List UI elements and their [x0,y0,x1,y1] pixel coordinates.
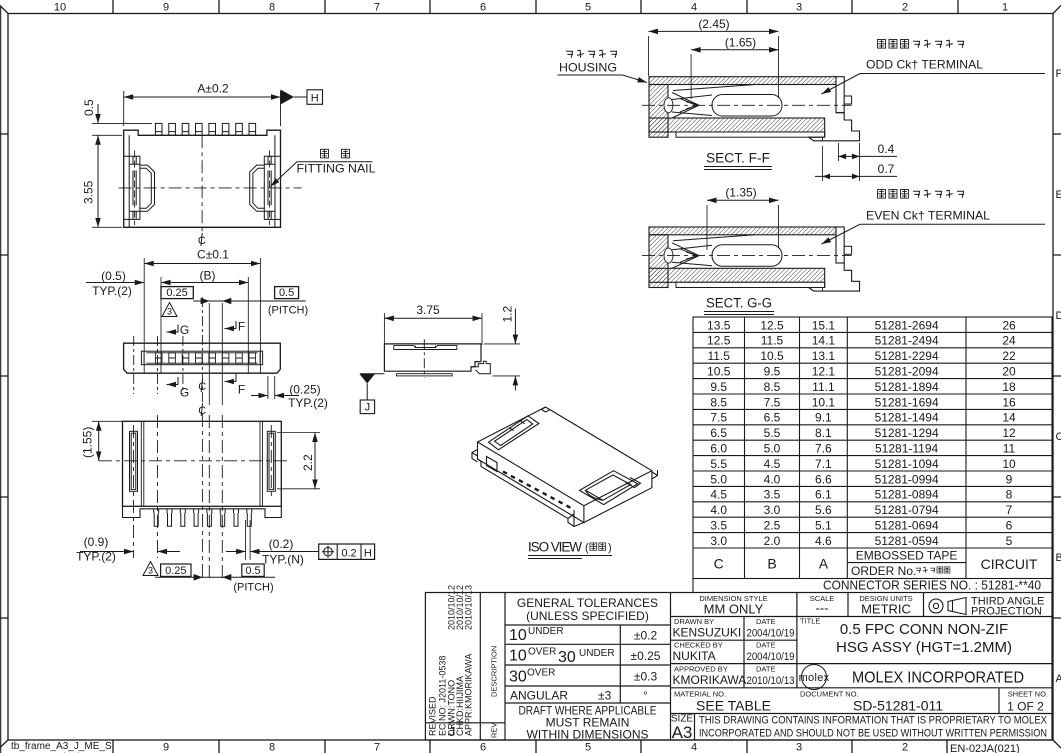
centerline [423,339,425,378]
svg-text:°: ° [643,689,648,703]
svg-text:5.0: 5.0 [710,472,727,486]
svg-text:D: D [1056,310,1061,322]
svg-text:14.1: 14.1 [812,334,836,348]
svg-text:tb_frame_A3_J_ME_S: tb_frame_A3_J_ME_S [11,741,112,752]
svg-text:0.7: 0.7 [878,162,895,176]
svg-text:J: J [449,724,456,739]
datum J flag [360,373,384,375]
svg-text:(UNLESS SPECIFIED): (UNLESS SPECIFIED) [526,609,649,623]
svg-text:SD-51281-011: SD-51281-011 [853,698,943,714]
svg-text:51281-1494: 51281-1494 [875,411,939,425]
svg-text:9.5: 9.5 [710,380,727,394]
nail slots [130,431,276,491]
svg-text:TYP.(N): TYP.(N) [262,553,304,567]
contact strip [141,351,262,365]
top face [478,407,652,506]
svg-text:H: H [311,92,319,104]
svg-text:OVER: OVER [527,668,555,679]
svg-text:4.5: 4.5 [764,457,781,471]
housing top bar (hatched) [649,77,836,85]
warning triangle 3 [162,303,177,317]
left wall notch [664,98,673,113]
SECT F-F dims and labels [558,17,1046,181]
svg-text:APPR:KMORIKAWA: APPR:KMORIKAWA [464,654,474,736]
svg-text:2.0: 2.0 [764,534,781,548]
svg-text:10: 10 [54,2,66,14]
svg-text:REV: REV [490,723,499,738]
svg-text:51281-0894: 51281-0894 [875,488,939,502]
svg-text:6.0: 6.0 [710,442,727,456]
right end block [836,77,844,113]
svg-text:14: 14 [1002,411,1016,425]
svg-text:MM ONLY: MM ONLY [704,602,764,617]
right lower tail [809,113,860,141]
svg-text:(1.35): (1.35) [725,186,756,200]
svg-text:SECT. F-F: SECT. F-F [706,151,770,166]
svg-text:F: F [1056,68,1061,80]
svg-text:11.1: 11.1 [812,380,835,394]
svg-text:CONNECTOR SERIES NO. : 51281-*: CONNECTOR SERIES NO. : 51281-**40 [823,578,1041,593]
svg-text:HSG ASSY (HGT=1.2MM): HSG ASSY (HGT=1.2MM) [836,639,1012,656]
svg-text:(1.55): (1.55) [81,427,95,458]
svg-text:(0.9): (0.9) [84,535,109,549]
svg-text:1.2: 1.2 [501,305,515,322]
front lower ledge [478,459,584,527]
odd terminal label [878,40,965,49]
svg-text:51281-1094: 51281-1094 [875,457,939,471]
svg-text:51281-0694: 51281-0694 [875,519,939,533]
svg-text:6: 6 [480,742,486,753]
gauge dashed lines [134,297,203,405]
svg-text:30: 30 [509,669,527,686]
svg-text:(PITCH): (PITCH) [233,582,273,594]
svg-text:HOUSING: HOUSING [559,61,617,75]
svg-text:9.5: 9.5 [764,365,781,379]
svg-text:A3: A3 [672,723,693,742]
centerline horizontal [119,187,302,189]
centerline symbol [198,233,206,247]
svg-text:PROJECTION: PROJECTION [971,606,1042,618]
svg-text:G: G [180,323,189,337]
svg-text:3.5: 3.5 [764,488,781,502]
housing left wall (hatched) [649,85,668,138]
frame bottom ticks [113,740,947,753]
pins [154,509,252,527]
svg-text:3.0: 3.0 [710,534,727,548]
svg-text:J: J [365,402,371,414]
svg-text:5: 5 [1006,534,1013,548]
svg-text:ORDER No.: ORDER No. [851,564,916,578]
svg-text:DATE: DATE [756,617,775,626]
svg-text:51281-2294: 51281-2294 [875,349,939,363]
fitting nail label [321,149,350,158]
svg-text:51281-1294: 51281-1294 [875,426,939,440]
title block [425,585,1052,742]
boxed 0.25 [161,564,191,576]
svg-text:51281-0594: 51281-0594 [875,534,939,548]
VIEW 3 : bottom view [76,403,374,594]
dim 0.4 / 0.7 [823,143,860,181]
svg-text:3.75: 3.75 [416,303,440,317]
frame top ticks [113,0,958,14]
svg-text:5.1: 5.1 [815,519,832,533]
warning triangle 3 [143,562,158,576]
svg-text:6.5: 6.5 [710,426,727,440]
svg-text:0.25: 0.25 [165,565,186,577]
boxed 0.25 [161,287,193,299]
terminal [672,85,782,119]
svg-text:1: 1 [1002,2,1008,14]
frame zone letters right [1056,68,1061,685]
svg-text:3.55: 3.55 [82,180,96,204]
svg-text:±3: ±3 [598,689,612,703]
svg-text:2: 2 [902,742,908,753]
svg-text:GENERAL TOLERANCES: GENERAL TOLERANCES [517,596,658,610]
svg-text:6: 6 [1006,519,1013,533]
svg-text:9: 9 [163,2,169,14]
boxed 0.5 pitch [242,564,264,576]
svg-text:DESCRIPTION: DESCRIPTION [490,646,499,697]
fitting nail left [124,151,155,226]
svg-text:DATE: DATE [756,665,775,674]
order table [693,317,1052,593]
svg-text:2004/10/19: 2004/10/19 [747,628,795,640]
svg-text:8.5: 8.5 [764,380,781,394]
svg-text:51281-0794: 51281-0794 [875,503,939,517]
frame zone numbers bottom [163,742,908,753]
svg-text:TYP.(2): TYP.(2) [92,284,132,298]
bottom flange [123,506,282,517]
svg-text:A: A [1056,673,1061,685]
svg-text:A±0.2: A±0.2 [197,82,229,96]
svg-text:3: 3 [796,2,802,14]
svg-text:12.5: 12.5 [760,318,784,332]
svg-text:2.5: 2.5 [764,519,781,533]
frame zone numbers top [54,2,1008,14]
fitting nail right [250,151,281,226]
svg-text:9.1: 9.1 [815,411,832,425]
revision column rotated texts [428,585,474,736]
svg-text:4: 4 [691,2,697,14]
third angle projection symbol [929,598,966,615]
svg-text:0.5: 0.5 [279,287,294,299]
svg-text:4.0: 4.0 [764,472,781,486]
svg-text:TYP.(2): TYP.(2) [288,396,328,410]
svg-text:51281-1194: 51281-1194 [875,442,938,456]
body sides [478,442,652,523]
SIDE VIEW 3.75 [359,303,520,414]
boxed 0.5 pitch [275,287,299,299]
svg-text:12.1: 12.1 [812,365,836,379]
svg-text:12.5: 12.5 [707,334,731,348]
svg-text:7: 7 [374,2,380,14]
svg-text:20: 20 [1002,365,1016,379]
svg-text:4.5: 4.5 [710,488,727,502]
ISO VIEW [472,407,658,527]
svg-text:0.25: 0.25 [166,287,187,299]
svg-text:51281-2494: 51281-2494 [875,334,939,348]
svg-text:OVER: OVER [528,647,556,658]
svg-text:REVISED: REVISED [428,696,438,736]
svg-text:5.5: 5.5 [764,426,781,440]
svg-text:10: 10 [509,648,527,665]
svg-text:(0.5): (0.5) [101,269,126,283]
svg-text:1 OF 2: 1 OF 2 [1007,700,1044,714]
svg-text:(: ( [585,542,589,554]
svg-text:8: 8 [1006,488,1013,502]
svg-text:11: 11 [1003,442,1016,456]
pins row [155,123,255,135]
svg-text:6.5: 6.5 [764,411,781,425]
svg-text:(0.2): (0.2) [269,537,294,551]
svg-text:(2.45): (2.45) [698,17,729,31]
centerlines [99,414,291,580]
centerline vertical [201,135,203,233]
svg-text:B: B [1056,552,1061,564]
section arrow H [281,90,295,105]
svg-text:F: F [238,320,245,334]
svg-text:13.1: 13.1 [812,349,836,363]
bottom terminal strip [676,132,825,137]
pitch shelf line [155,576,275,578]
svg-text:7.1: 7.1 [815,457,832,471]
svg-text:): ) [608,542,612,554]
right end step [652,470,658,479]
svg-text:7.5: 7.5 [764,395,781,409]
body [384,344,481,371]
svg-text:15.1: 15.1 [812,318,836,332]
housing bottom bar (hatched) [649,118,825,132]
left end step [472,450,478,463]
order-no katakana (small) [916,567,950,573]
svg-text:C±0.1: C±0.1 [197,248,229,262]
VIEW 1 : front view top-left [82,82,376,247]
svg-text:10.1: 10.1 [812,395,836,409]
svg-text:(0.25): (0.25) [289,383,320,397]
svg-text:F: F [238,383,245,397]
svg-text:5: 5 [585,742,591,753]
svg-text:2.2: 2.2 [301,454,315,471]
svg-text:7.6: 7.6 [815,442,832,456]
position tolerance frame [319,544,375,559]
SECTION housing symbol [642,77,860,141]
svg-text:EMBOSSED TAPE: EMBOSSED TAPE [856,548,958,562]
inner wall lines [129,135,275,227]
svg-text:7: 7 [374,742,380,753]
svg-text:CIRCUIT: CIRCUIT [981,556,1038,572]
svg-text:INCORPORATED AND SHOULD NOT BE: INCORPORATED AND SHOULD NOT BE USED WITH… [699,728,1047,740]
contacts [155,353,255,363]
body outline [123,421,282,506]
svg-text:ODD Ck† TERMINAL: ODD Ck† TERMINAL [866,58,983,72]
svg-text:3.0: 3.0 [764,503,781,517]
svg-text:SEE TABLE: SEE TABLE [696,698,771,714]
svg-text:G: G [180,386,189,400]
svg-text:16: 16 [1002,395,1016,409]
svg-text:2: 2 [902,2,908,14]
svg-text:KMORIKAWA: KMORIKAWA [673,673,747,687]
svg-text:KENSUZUKI: KENSUZUKI [673,626,742,640]
svg-text:11.5: 11.5 [761,334,784,348]
svg-text:12: 12 [1002,426,1016,440]
svg-text:51281-1894: 51281-1894 [875,380,939,394]
svg-text:0.2: 0.2 [341,547,356,559]
svg-text:EVEN Ck† TERMINAL: EVEN Ck† TERMINAL [866,209,990,223]
bottom plate [397,374,453,376]
svg-text:UNDER: UNDER [528,626,564,637]
svg-text:2010/10/13: 2010/10/13 [747,675,795,687]
svg-text:C: C [1056,431,1061,443]
svg-text:6.6: 6.6 [815,472,832,486]
svg-text:---: --- [816,601,829,616]
centerline [642,104,852,106]
svg-text:18: 18 [1002,380,1016,394]
svg-text:MOLEX INCORPORATED: MOLEX INCORPORATED [852,670,1024,687]
svg-text:4.6: 4.6 [815,534,832,548]
body outline [124,130,281,227]
svg-text:0.4: 0.4 [878,142,895,156]
front slot opening [487,457,498,472]
molex logo [802,665,827,690]
svg-text:9: 9 [1006,472,1013,486]
svg-text:ISO VIEW: ISO VIEW [528,540,582,555]
VIEW 2 : plan view [86,248,328,411]
svg-text:8: 8 [269,742,275,753]
svg-text:51281-2094: 51281-2094 [875,365,939,379]
top actuator plate [394,346,457,350]
svg-text:51281-2694: 51281-2694 [875,318,939,332]
svg-text:51281-1694: 51281-1694 [875,395,939,409]
svg-text:6.1: 6.1 [815,488,832,502]
svg-text:10: 10 [1002,457,1016,471]
svg-text:DATE: DATE [756,641,775,650]
svg-text:3: 3 [796,742,802,753]
svg-text:SHEET NO.: SHEET NO. [1008,690,1048,699]
svg-text:THIS DRAWING CONTAINS INFORMAT: THIS DRAWING CONTAINS INFORMATION THAT I… [699,715,1048,727]
svg-text:EN-02JA(021): EN-02JA(021) [950,743,1020,753]
svg-text:ANGULAR: ANGULAR [510,689,568,703]
svg-text:0.5: 0.5 [82,99,96,116]
svg-text:3.5: 3.5 [710,519,727,533]
svg-text:E: E [1056,189,1061,201]
svg-text:±0.2: ±0.2 [634,629,658,643]
svg-text:5.6: 5.6 [815,503,832,517]
svg-text:24: 24 [1002,334,1016,348]
svg-text:2010/10/13: 2010/10/13 [464,585,474,630]
svg-text:0.5 FPC CONN NON-ZIF: 0.5 FPC CONN NON-ZIF [840,621,1008,638]
svg-text:UNDER: UNDER [579,648,615,659]
svg-text:3: 3 [148,566,153,576]
svg-text:0.5: 0.5 [245,565,260,577]
svg-text:FITTING NAIL: FITTING NAIL [297,162,376,176]
housing label [566,50,617,58]
svg-text:8.5: 8.5 [710,395,727,409]
svg-text:DOCUMENT NO.: DOCUMENT NO. [800,690,859,699]
SECT G-G [642,227,860,291]
svg-text:10: 10 [509,627,527,644]
frame side ticks [0,134,1061,618]
svg-text:5: 5 [585,2,591,14]
svg-text:5.0: 5.0 [764,442,781,456]
svg-text:(1.65): (1.65) [725,36,756,50]
svg-text:C: C [714,556,724,572]
svg-text:WITHIN DIMENSIONS: WITHIN DIMENSIONS [527,728,649,742]
svg-text:(PITCH): (PITCH) [268,305,308,317]
svg-text:11.5: 11.5 [707,349,730,363]
svg-text:B: B [767,556,776,572]
top rear edge detail [542,407,550,412]
svg-text:4: 4 [691,742,697,753]
even terminal label [878,190,965,199]
svg-text:2004/10/19: 2004/10/19 [747,651,795,663]
svg-text:(B): (B) [200,269,216,283]
svg-text:7.5: 7.5 [710,411,727,425]
contact dashes along front [503,472,571,509]
svg-text:10.5: 10.5 [760,349,784,363]
svg-text:SECT. G-G: SECT. G-G [706,296,772,311]
svg-text:13.5: 13.5 [707,318,731,332]
left latch [489,416,539,450]
right latch [580,471,638,505]
svg-text:6: 6 [480,2,486,14]
svg-text:26: 26 [1002,318,1016,332]
svg-text:9: 9 [163,742,169,753]
svg-text:8.1: 8.1 [815,426,832,440]
inner walls [141,421,262,506]
svg-text:A: A [819,556,829,572]
svg-text:±0.3: ±0.3 [634,670,658,684]
svg-text:51281-0994: 51281-0994 [875,472,939,486]
svg-text:5.5: 5.5 [710,457,727,471]
svg-text:4.0: 4.0 [710,503,727,517]
svg-text:30: 30 [558,649,576,666]
svg-text:METRIC: METRIC [861,602,911,617]
svg-text:molex: molex [799,672,830,684]
svg-text:7: 7 [1006,503,1013,517]
body outline [124,343,281,373]
svg-text:H: H [364,547,372,559]
svg-text:NUKITA: NUKITA [673,649,716,663]
svg-text:TITLE: TITLE [800,617,820,626]
svg-text:3: 3 [167,307,172,317]
svg-text:8: 8 [269,2,275,14]
svg-text:10.5: 10.5 [707,365,731,379]
svg-text:±0.25: ±0.25 [631,649,661,663]
svg-text:22: 22 [1002,349,1016,363]
